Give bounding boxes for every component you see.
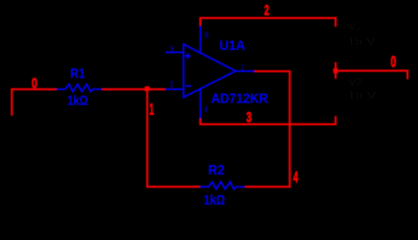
svg-text:3: 3 — [170, 45, 174, 54]
wire R1 to inverting input — [102, 88, 165, 90]
svg-text:U1A: U1A — [219, 37, 245, 53]
wire V1 minus to node 0 junction — [335, 63, 337, 79]
svg-text:1: 1 — [241, 63, 244, 72]
svg-text:15 V: 15 V — [347, 37, 375, 48]
wire input stub left — [12, 89, 57, 115]
wire node 0 stub right — [336, 71, 408, 79]
junction node 0 right — [333, 68, 338, 73]
svg-text:1kΩ: 1kΩ — [204, 192, 225, 208]
resistor R2 — [200, 182, 245, 189]
op-amp U1A — [165, 26, 254, 119]
svg-text:V2: V2 — [348, 77, 363, 88]
voltage source V1 (drawn nearly black) — [327, 27, 345, 63]
wire pin8 to V1 (net 2) — [200, 18, 335, 27]
pin 4 lead (V-) — [199, 89, 201, 119]
resistor R1 — [57, 84, 102, 91]
pin 2 lead (inverting input) — [165, 88, 183, 90]
svg-text:R2: R2 — [208, 162, 225, 178]
wire node1 down to R2 — [147, 89, 200, 187]
svg-text:1: 1 — [149, 102, 154, 119]
svg-text:V1: V1 — [349, 22, 362, 33]
wire pin4 to V2 (net 3) — [200, 116, 335, 124]
svg-text:0: 0 — [32, 75, 38, 92]
voltage source V2 (drawn nearly black) — [327, 79, 345, 117]
svg-text:0: 0 — [391, 54, 397, 71]
output pin 1 lead — [236, 70, 255, 72]
svg-text:AD712KR: AD712KR — [211, 90, 268, 106]
svg-text:2: 2 — [264, 2, 269, 19]
pin 3 lead (non-inverting input) — [165, 51, 183, 53]
svg-text:3: 3 — [246, 109, 251, 126]
svg-text:1kΩ: 1kΩ — [67, 92, 88, 108]
svg-text:8: 8 — [205, 31, 209, 40]
pin 8 lead (V+) — [199, 26, 201, 53]
svg-text:4: 4 — [204, 105, 208, 114]
svg-text:15 V: 15 V — [348, 91, 377, 102]
junction node 1 — [145, 86, 150, 91]
svg-text:R1: R1 — [70, 65, 85, 81]
minus sign — [186, 85, 191, 87]
svg-text:2: 2 — [170, 80, 174, 89]
svg-text:4: 4 — [293, 170, 298, 187]
wire R2 right to output feedback — [245, 71, 290, 187]
plus sign — [185, 53, 191, 59]
